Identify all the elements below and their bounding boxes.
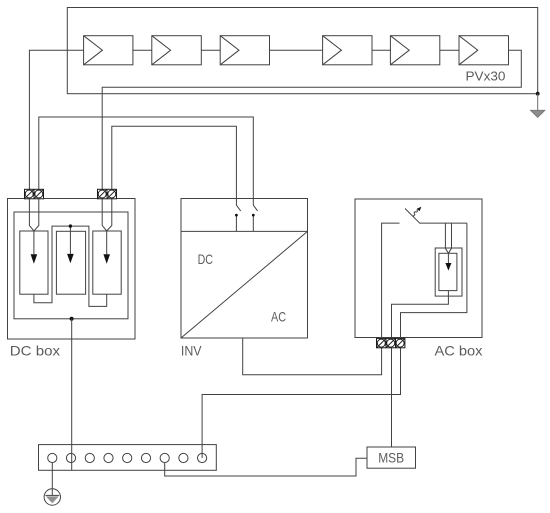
- wire (PV4-PV5): [372, 49, 390, 51]
- wire (terminal 7 to MSB): [165, 458, 367, 476]
- wire (X1 pins converge into SPD F1): [29, 199, 38, 231]
- PV module PV1: [84, 36, 133, 65]
- svg-text:AC: AC: [271, 309, 286, 325]
- node (F2 top junction): [69, 224, 72, 227]
- node (PE bus to earth bar): [70, 317, 74, 321]
- wire (PV2-PV3): [201, 49, 220, 51]
- fuse F4 cartridge: [439, 253, 457, 290]
- connector X1 (2-pole, DC box top left): [25, 189, 44, 199]
- terminal 8: [179, 453, 188, 462]
- svg-text:PVx30: PVx30: [466, 70, 506, 84]
- breaker Q1: [405, 207, 421, 224]
- wire (INV AC out to AC box X3 pin1): [243, 338, 382, 375]
- wire (F1 bottom - F2 top - F3 bottom link): [34, 226, 107, 306]
- switch Sa (INV DC input left pole): [235, 205, 241, 231]
- svg-text:INV: INV: [181, 343, 202, 359]
- PV module PV4: [323, 36, 372, 65]
- MSB box: [367, 447, 416, 468]
- SPD F2: [56, 226, 85, 294]
- connector X2 (2-pole, DC box top right): [98, 189, 117, 199]
- DC box enclosure: [8, 199, 136, 340]
- svg-text:AC box: AC box: [435, 343, 483, 359]
- svg-text:MSB: MSB: [378, 450, 404, 465]
- terminal 3: [85, 453, 94, 462]
- fuse F4 holder: [435, 248, 462, 296]
- wire (bypass down to X3 pin3): [401, 223, 467, 338]
- PV module PV2: [152, 36, 202, 65]
- wire (fuse right prong up): [448, 223, 451, 253]
- earth electrode: [44, 489, 60, 505]
- svg-text:DC: DC: [198, 251, 213, 267]
- wire (PV1-PV2): [133, 49, 152, 51]
- PV module PV3: [220, 36, 269, 65]
- wire (X2 pins converge into SPD F3): [102, 199, 112, 231]
- terminal 4: [104, 453, 113, 462]
- terminal 6: [141, 453, 150, 462]
- wire (drop into fuse left prong): [445, 223, 448, 253]
- wire (PV3-PV4): [270, 49, 323, 51]
- wire (X3 pin2 down to MSB): [391, 348, 393, 447]
- switch Sb (INV DC input right pole): [252, 205, 258, 231]
- wire (DC box PE down to terminal bar): [71, 319, 73, 471]
- terminal 9: [198, 453, 207, 462]
- SPD F1: [20, 231, 48, 294]
- svg-text:DC box: DC box: [10, 343, 60, 359]
- wire (X2 pin2 up and over to INV switch a): [112, 126, 237, 205]
- node (frame-earth junction): [536, 92, 540, 96]
- PE bus ring (inner rectangle): [14, 212, 128, 319]
- PV module PV6: [459, 36, 509, 65]
- AC box enclosure: [355, 199, 482, 338]
- terminal 2: [66, 453, 75, 462]
- wire (PV string positive: PV1 left down to DC box X1 pin1): [29, 50, 83, 189]
- PV module PV5: [390, 36, 439, 65]
- INV box: [181, 199, 308, 339]
- connector X3 (3-pole, AC box bottom): [377, 338, 405, 347]
- wire (X1 pin2 up and over to INV switch b): [39, 117, 254, 205]
- terminal bar (PE equipotential bar): [39, 445, 217, 471]
- wire (fuse bottom to X3 pin2): [392, 291, 449, 339]
- terminal 1: [48, 453, 57, 462]
- wire (terminal 1 to earth electrode): [51, 463, 53, 496]
- terminal 5: [123, 453, 132, 462]
- wire (PV5-PV6): [440, 49, 459, 51]
- ground: [531, 94, 545, 118]
- wire (breaker out to fuse and bypass): [420, 222, 467, 224]
- wire (PV string negative: PV6 right, around to DC box X2 pin1): [102, 50, 521, 189]
- INV converter square with diagonal: [181, 231, 308, 338]
- terminal 7: [160, 453, 169, 462]
- PV array frame: [67, 8, 537, 94]
- wire (X3 pin3 over to terminal bar): [202, 348, 400, 458]
- wire (X3 pin1 up to breaker): [382, 223, 400, 338]
- SPD F3: [93, 231, 121, 294]
